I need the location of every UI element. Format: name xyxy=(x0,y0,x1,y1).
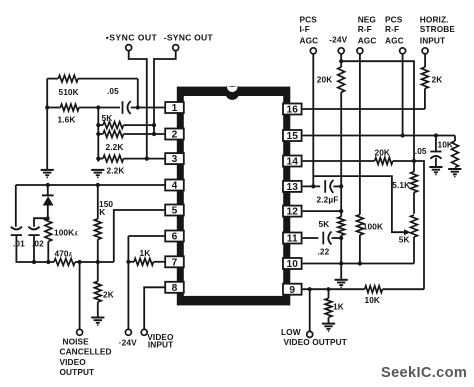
wire HORIZ STROBE stub xyxy=(424,54,426,67)
resistor 510K xyxy=(47,75,138,107)
label VIDEO INPUT xyxy=(147,332,174,349)
resistor 2.2K upper xyxy=(98,131,165,138)
label 2.2uF xyxy=(317,194,339,204)
ground .05 right xyxy=(429,167,442,175)
label .05 xyxy=(107,86,119,96)
svg-text:10K: 10K xyxy=(365,295,381,305)
IC pin 6 xyxy=(165,231,184,243)
junction PCS R-F/pin15 xyxy=(401,133,405,137)
svg-text:•SYNC OUT: •SYNC OUT xyxy=(106,32,158,42)
wire noise output drop xyxy=(79,262,81,329)
wire pin 14 line xyxy=(303,160,375,162)
resistor 20K (-24V) xyxy=(338,67,345,92)
label 2K left xyxy=(103,289,114,299)
resistor 1K (low video) xyxy=(325,289,332,323)
label -24V top xyxy=(329,35,347,45)
label OUTPUT xyxy=(60,367,95,377)
junction low video output xyxy=(308,287,312,291)
label .02 xyxy=(32,239,44,249)
junction rail B top xyxy=(96,105,100,109)
svg-text:20K: 20K xyxy=(317,74,333,84)
svg-text:20K: 20K xyxy=(375,147,391,157)
IC pin 13 xyxy=(283,181,302,193)
wire pin 16 line xyxy=(303,108,425,110)
wire 470 to 150K foot xyxy=(80,261,114,263)
junction -SYNC/5K wire xyxy=(152,123,156,127)
svg-text:1: 1 xyxy=(172,103,178,114)
junction diode/pin4 xyxy=(46,183,50,187)
label 510K xyxy=(59,87,79,97)
ground 1K low video xyxy=(322,324,335,332)
svg-text:·24V: ·24V xyxy=(119,338,137,348)
svg-text:.05: .05 xyxy=(415,146,427,156)
svg-text:12: 12 xyxy=(287,207,299,218)
potentiometer 5K xyxy=(411,215,418,264)
svg-text:5.1K: 5.1K xyxy=(392,180,410,190)
wire pin 15 line xyxy=(303,135,455,137)
svg-text:AGC: AGC xyxy=(300,36,319,46)
svg-text:AGC: AGC xyxy=(385,36,404,46)
wire PCS R-F column xyxy=(402,54,404,136)
label 5K agc xyxy=(319,219,330,229)
capacitor 2.2uF xyxy=(325,180,341,193)
label .05 right xyxy=(415,146,427,156)
capacitor .02 xyxy=(28,227,39,235)
diode D1 xyxy=(42,185,54,218)
wire cap to pin 1 xyxy=(131,107,166,109)
svg-text:R-F: R-F xyxy=(358,24,372,34)
label LOW VIDEO OUTPUT xyxy=(281,327,347,347)
label 2.2K upper xyxy=(106,142,124,152)
svg-text:3: 3 xyxy=(172,154,178,165)
junction 100K/pin10 xyxy=(358,261,362,265)
resistor 5K (agc) xyxy=(338,217,345,236)
capacitor .05 (pin1 coupling) xyxy=(123,101,131,114)
svg-text:2K: 2K xyxy=(103,289,114,299)
svg-text:INPUT: INPUT xyxy=(148,339,173,349)
label HORIZ STROBE INPUT xyxy=(420,14,456,45)
capacitor .22 xyxy=(323,232,341,245)
capacitor .01 xyxy=(11,227,22,235)
svg-text:1K: 1K xyxy=(140,248,151,258)
svg-text:2: 2 xyxy=(172,130,178,141)
ground 10K right xyxy=(448,169,461,177)
label .22 xyxy=(318,246,330,256)
junction pin14 node xyxy=(412,159,416,163)
resistor 2K (left) xyxy=(94,262,101,317)
ground -24V column xyxy=(335,280,348,288)
wire +SYNC OUT to pin 3 line xyxy=(129,51,147,159)
svg-text:.05: .05 xyxy=(107,86,119,96)
label 1K video xyxy=(140,248,151,258)
wire node to .02 cap xyxy=(34,218,48,227)
label NOISE xyxy=(63,336,90,346)
wire .01 to bottom rail xyxy=(16,235,55,262)
svg-text:8: 8 xyxy=(172,283,178,294)
wire PCS I-F AGC column xyxy=(312,54,314,187)
svg-text:5: 5 xyxy=(172,206,178,217)
IC pin 7 xyxy=(165,256,184,268)
svg-text:7: 7 xyxy=(172,257,178,268)
label +SYNC OUT xyxy=(106,32,158,42)
svg-text:R-F: R-F xyxy=(385,24,399,34)
wire -24V column mid xyxy=(340,92,342,216)
label NEG R-F AGC xyxy=(358,14,377,45)
resistor 2.2K lower xyxy=(98,155,165,162)
svg-text:5K: 5K xyxy=(102,113,113,123)
IC pin 4 xyxy=(165,180,184,192)
resistor 5K xyxy=(98,122,154,129)
IC pin 15 xyxy=(283,130,302,142)
label PCS I-F AGC xyxy=(300,14,319,45)
label 2K strobe xyxy=(432,74,443,84)
junction noise output xyxy=(78,260,82,264)
junction 1K/-24V line xyxy=(126,260,130,264)
junction .05/pin15 xyxy=(434,133,438,137)
label 5.1K xyxy=(392,180,410,190)
wire left edge down xyxy=(15,185,17,227)
IC U1 body xyxy=(177,86,290,306)
terminal +SYNC OUT xyxy=(126,45,132,51)
svg-text:10: 10 xyxy=(287,259,299,270)
svg-text:1K: 1K xyxy=(333,301,344,311)
wire wiper branch xyxy=(313,176,405,232)
svg-text:16: 16 xyxy=(287,105,299,116)
junction PCS I-F/pin13 xyxy=(311,184,315,188)
svg-text:11: 11 xyxy=(287,234,298,245)
wire pin 6 / -24V line xyxy=(128,236,165,329)
junction pin10/-24V xyxy=(339,261,343,265)
svg-text:2.2K: 2.2K xyxy=(107,166,125,176)
label PCS R-F AGC xyxy=(385,14,404,45)
label CANCELLED xyxy=(60,347,112,357)
svg-text:INPUT: INPUT xyxy=(420,36,445,46)
terminal NOISE CANCELLED VIDEO OUTPUT xyxy=(77,329,83,335)
IC pin 16 xyxy=(283,104,302,116)
resistor 20K (pin14) xyxy=(375,158,414,165)
ground rail B xyxy=(91,170,104,178)
svg-text:1.6K: 1.6K xyxy=(58,115,76,125)
terminal PCS I-F AGC xyxy=(310,48,316,54)
label 1K low video xyxy=(333,301,344,311)
wire rail B xyxy=(97,108,99,162)
svg-text:15: 15 xyxy=(287,131,299,142)
label 10K right xyxy=(438,140,454,150)
svg-text:.01: .01 xyxy=(13,239,25,249)
svg-text:2.2K: 2.2K xyxy=(106,142,124,152)
wire -24V to strobe column xyxy=(341,61,414,161)
IC pin 2 xyxy=(165,129,184,141)
label 20K pin14 xyxy=(375,147,391,157)
resistor 10K (strobe div) xyxy=(452,136,459,168)
watermark SeekIC.com xyxy=(381,365,467,381)
label VIDEO xyxy=(60,357,87,367)
label 100K noise xyxy=(54,228,78,238)
svg-text:AGC: AGC xyxy=(358,36,377,46)
junction .22/-24V xyxy=(339,236,343,240)
svg-text:NOISE: NOISE xyxy=(63,336,90,346)
IC pin 10 xyxy=(283,258,302,270)
resistor 1.6K xyxy=(47,104,120,111)
svg-text:100K: 100K xyxy=(363,221,383,231)
svg-text:2K: 2K xyxy=(432,74,443,84)
IC pin 1 xyxy=(165,102,184,114)
label .01 xyxy=(13,239,25,249)
IC pin 12 xyxy=(283,206,302,218)
svg-text:14: 14 xyxy=(287,157,299,168)
junction 150K/pin4 xyxy=(96,183,100,187)
label -24V bottom xyxy=(119,338,137,348)
IC pin 9 xyxy=(283,284,302,296)
IC pin 14 xyxy=(283,156,302,168)
label 20K left xyxy=(317,74,333,84)
IC pin 5 xyxy=(165,205,184,217)
ground rail A xyxy=(41,170,54,178)
svg-text:13: 13 xyxy=(287,182,299,193)
terminal -SYNC OUT xyxy=(173,45,179,51)
junction 150K-2K/470 wire xyxy=(96,260,100,264)
IC pin 8 xyxy=(165,282,184,294)
terminal VIDEO INPUT xyxy=(141,329,147,335)
junction pin12/-24V xyxy=(339,209,343,213)
label 5K xyxy=(102,113,113,123)
pot wiper arrowhead xyxy=(404,229,411,235)
svg-text:VIDEO: VIDEO xyxy=(60,357,87,367)
wire pin 5 line xyxy=(114,210,166,262)
svg-text:510K: 510K xyxy=(59,87,79,97)
resistor 100K (noise gate) xyxy=(45,218,52,262)
svg-text:VIDEO OUTPUT: VIDEO OUTPUT xyxy=(284,337,347,347)
svg-text:STROBE: STROBE xyxy=(420,24,456,34)
junction -24V branch xyxy=(339,59,343,63)
junction .02/bottom rail xyxy=(32,260,36,264)
wire .02 to bottom rail xyxy=(33,235,35,262)
IC pin 11 xyxy=(283,233,302,245)
resistor 10K (pin9) xyxy=(365,286,424,293)
wire -SYNC OUT to pin 2 line xyxy=(154,51,176,134)
wire -24V column low xyxy=(340,235,342,279)
svg-text:5K: 5K xyxy=(399,235,410,245)
wire pin 12 line xyxy=(303,210,342,212)
junction diode/100K/.02 node xyxy=(46,216,50,220)
terminal -24V (top) xyxy=(338,48,344,54)
svg-text:100Kʎ: 100Kʎ xyxy=(54,228,78,238)
wire pin 11 line xyxy=(303,237,319,239)
label 470 ohm xyxy=(55,249,73,259)
junction -SYNC/pin2 wire xyxy=(152,132,156,136)
label 2.2K lower xyxy=(107,166,125,176)
resistor 470 ohm xyxy=(54,259,80,266)
junction +SYNC/pin3 wire xyxy=(145,157,149,161)
junction 100K/bottom rail xyxy=(46,260,50,264)
wire 2K to pin16 line xyxy=(424,89,426,110)
wire pin 13 line xyxy=(303,185,321,187)
wire low video drop xyxy=(309,289,311,331)
terminal HORIZ STROBE INPUT xyxy=(422,48,428,54)
resistor 100K (agc) xyxy=(357,215,364,264)
wire -24V top stub xyxy=(340,54,342,67)
terminal -24V (bottom) xyxy=(125,329,131,335)
svg-text:4: 4 xyxy=(172,181,178,192)
resistor 1K (video input) xyxy=(128,258,165,265)
svg-text:SeekIC.com: SeekIC.com xyxy=(381,365,467,381)
svg-text:-SYNC OUT: -SYNC OUT xyxy=(164,32,214,42)
svg-text:OUTPUT: OUTPUT xyxy=(60,367,95,377)
wire NEG R-F column xyxy=(359,54,361,215)
junction rail A/1.6K xyxy=(45,105,49,109)
wire pin 4 line xyxy=(16,184,166,186)
wire pin 10 line xyxy=(303,263,414,265)
junction rail B/2.2K lower xyxy=(96,157,100,161)
svg-text:LOW: LOW xyxy=(281,327,301,337)
IC pin 3 xyxy=(165,153,184,165)
label 5K pot xyxy=(399,235,410,245)
svg-text:NEG: NEG xyxy=(358,14,376,24)
ground under 2K xyxy=(91,318,104,326)
terminal PCS R-F AGC xyxy=(400,48,406,54)
wire pin 9 line xyxy=(303,288,365,290)
svg-text:I-F: I-F xyxy=(300,24,310,34)
svg-text:-24V: -24V xyxy=(329,35,347,45)
svg-text:10K: 10K xyxy=(438,140,454,150)
svg-text:PCS: PCS xyxy=(385,14,403,24)
junction rail B/2.2K upper xyxy=(96,132,100,136)
label 10K pin9 xyxy=(365,295,381,305)
svg-text:HORIZ.: HORIZ. xyxy=(420,14,449,24)
wire left rail A xyxy=(46,79,48,170)
label 150K xyxy=(99,199,113,217)
junction 1K out/pin9 xyxy=(326,287,330,291)
svg-text:PCS: PCS xyxy=(300,14,318,24)
junction 510K/pin1 wire xyxy=(136,105,140,109)
junction 2.2uF/-24V xyxy=(339,184,343,188)
svg-text:6: 6 xyxy=(172,232,178,243)
svg-text:.22: .22 xyxy=(318,246,330,256)
wire pin 8 line xyxy=(144,287,165,329)
svg-text:470ʎ: 470ʎ xyxy=(55,249,73,259)
svg-text:9: 9 xyxy=(289,285,295,296)
label 100K agc xyxy=(363,221,383,231)
terminal LOW VIDEO OUTPUT xyxy=(307,331,313,337)
svg-text:K: K xyxy=(99,207,105,217)
resistor 5.1K xyxy=(411,161,418,214)
terminal NEG R-F AGC xyxy=(357,48,363,54)
svg-text:CANCELLED: CANCELLED xyxy=(60,347,112,357)
svg-text:5K: 5K xyxy=(319,219,330,229)
resistor 2K (strobe) xyxy=(422,67,429,88)
svg-text:2.2µF: 2.2µF xyxy=(317,194,339,204)
label 1.6K xyxy=(58,115,76,125)
junction rail B/5K xyxy=(96,123,100,127)
capacitor .05 (pin15) xyxy=(430,136,441,167)
wire pin14 node to 10K column xyxy=(414,161,424,289)
label -SYNC OUT xyxy=(164,32,214,42)
resistor 150K xyxy=(94,185,101,262)
